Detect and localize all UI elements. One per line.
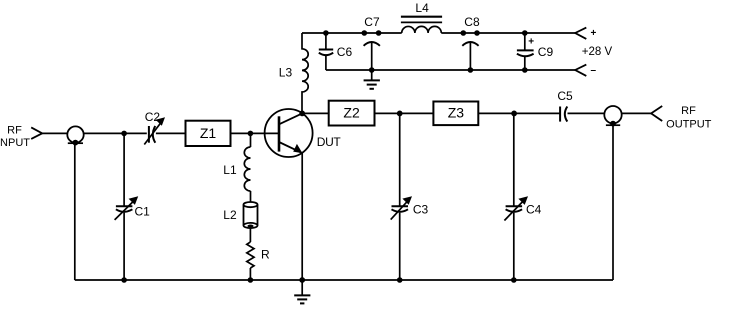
capacitor C3 (variable) xyxy=(392,206,409,212)
svg-text:C6: C6 xyxy=(337,45,353,59)
resistor R xyxy=(247,242,254,268)
capacitor C4 (variable) xyxy=(506,206,522,212)
junction C1 bottom rail xyxy=(121,277,127,283)
capacitor C9 (polarized) xyxy=(524,33,526,50)
junction R bottom rail xyxy=(248,277,254,283)
wire connector shield down xyxy=(612,125,614,280)
ferrite bead L2 xyxy=(244,202,258,207)
svg-text:C3: C3 xyxy=(413,202,429,216)
svg-text:C8: C8 xyxy=(464,15,480,29)
svg-text:R: R xyxy=(261,247,270,261)
node G junction C8 ground xyxy=(468,67,474,73)
svg-text:C7: C7 xyxy=(364,15,380,29)
svg-text:Z1: Z1 xyxy=(200,125,217,141)
wire L3 top rail to C6 xyxy=(302,32,326,34)
junction C4 bottom rail xyxy=(511,277,517,283)
node B junction xyxy=(248,131,254,137)
connector J2 output xyxy=(604,106,621,123)
svg-text:C9: C9 xyxy=(538,45,554,59)
feedthrough capacitor C7 xyxy=(362,30,368,36)
capacitor C5 xyxy=(560,107,567,122)
wire node H down to C3 xyxy=(399,113,401,206)
node D junction C6 top xyxy=(323,30,329,36)
junction emitter bottom rail xyxy=(299,277,305,283)
wire top rail C6 to C7 xyxy=(326,32,402,34)
port arrow - terminal xyxy=(575,65,586,76)
svg-text:RF: RF xyxy=(681,105,696,117)
wire node I down to C4 xyxy=(513,113,515,206)
transistor Q1 DUT xyxy=(265,109,313,157)
svg-text:OUTPUT: OUTPUT xyxy=(666,118,712,130)
capacitor C2 (variable, series) xyxy=(149,126,155,143)
svg-text:Z2: Z2 xyxy=(343,105,360,121)
wire L2 to R xyxy=(249,228,251,243)
wire node A to C2 xyxy=(124,132,147,134)
svg-text:RF: RF xyxy=(7,125,22,137)
inductor L3 xyxy=(302,33,308,113)
svg-text:C1: C1 xyxy=(135,205,151,219)
block Z1 xyxy=(186,121,231,146)
svg-text:Z3: Z3 xyxy=(448,105,465,121)
wire C1 to bottom rail xyxy=(123,213,125,280)
node H junction xyxy=(397,111,403,117)
node F junction C7 ground xyxy=(369,67,375,73)
port arrow RF INPUT xyxy=(31,127,42,138)
junction C3 bottom rail xyxy=(397,277,403,283)
wire L1 to L2 xyxy=(250,191,252,202)
wire emitter down to ground rail xyxy=(301,153,303,280)
ground main xyxy=(301,280,303,295)
bottom ground rail xyxy=(75,279,613,281)
capacitor C6 xyxy=(325,33,327,50)
block Z3 xyxy=(433,102,478,126)
svg-text:L3: L3 xyxy=(279,66,293,80)
capacitor C1 (variable) xyxy=(116,206,132,212)
lower supply rail xyxy=(326,69,575,71)
node A junction xyxy=(121,131,127,137)
wire node B down to L1 xyxy=(250,133,252,147)
svg-text:L4: L4 xyxy=(415,1,429,15)
inductor L1 xyxy=(244,147,250,191)
wire L4 to C8 xyxy=(441,32,477,34)
wire top rail C9 to + terminal xyxy=(525,32,575,34)
wire Z3 to C5 xyxy=(478,112,560,114)
svg-text:C2: C2 xyxy=(145,110,161,124)
wire input to connector xyxy=(42,132,67,134)
svg-text:DUT: DUT xyxy=(317,135,342,149)
svg-text:L2: L2 xyxy=(223,208,237,222)
node C collector junction xyxy=(299,111,305,117)
node E junction C9 top xyxy=(522,30,528,36)
wire C4 to bottom rail xyxy=(513,213,515,280)
svg-text:L1: L1 xyxy=(223,163,237,177)
wire Z1 to node B xyxy=(231,132,280,134)
svg-text:+: + xyxy=(591,28,597,39)
port arrow RF OUTPUT xyxy=(651,106,662,121)
svg-text:INPUT: INPUT xyxy=(0,137,30,149)
wire Z2 to Z3 xyxy=(375,112,434,114)
svg-text:+: + xyxy=(528,37,534,48)
ground under C7 xyxy=(371,70,373,80)
wire connector to output port xyxy=(622,112,651,114)
wire top rail C8 to C9 xyxy=(477,32,525,34)
inductor L4 xyxy=(402,26,442,33)
wire connector shield down xyxy=(74,143,76,280)
node I junction xyxy=(511,111,517,117)
wire C2 to Z1 xyxy=(156,132,186,134)
port arrow + terminal xyxy=(575,28,586,39)
wire C5 to connector xyxy=(568,112,605,114)
wire collector to Z2 xyxy=(302,112,329,114)
svg-text:C5: C5 xyxy=(557,89,573,103)
wire C3 to bottom rail xyxy=(399,213,401,280)
block Z2 xyxy=(329,101,375,126)
svg-text:–: – xyxy=(591,65,597,76)
wire R to bottom rail xyxy=(249,268,251,280)
svg-text:C4: C4 xyxy=(526,202,542,216)
feedthrough capacitor C8 xyxy=(461,30,467,36)
connector J1 input xyxy=(67,126,83,142)
wire connector to node A xyxy=(84,132,124,134)
svg-text:+28 V: +28 V xyxy=(582,46,613,58)
wire node A down to C1 xyxy=(123,133,125,206)
